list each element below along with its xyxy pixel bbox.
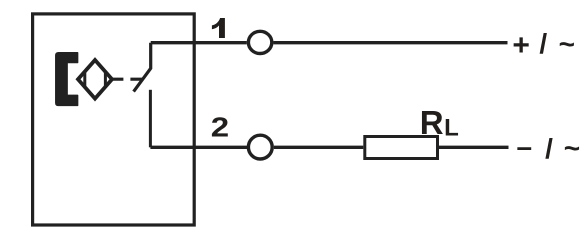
svg-text:/: /	[545, 133, 553, 164]
svg-text:/: /	[539, 28, 547, 59]
svg-text:+: +	[512, 29, 530, 62]
svg-text:–: –	[517, 131, 533, 162]
svg-text:~: ~	[559, 29, 575, 60]
svg-text:2: 2	[211, 112, 229, 143]
svg-text:~: ~	[564, 133, 580, 164]
svg-text:R: R	[420, 104, 444, 141]
svg-text:L: L	[444, 115, 459, 142]
